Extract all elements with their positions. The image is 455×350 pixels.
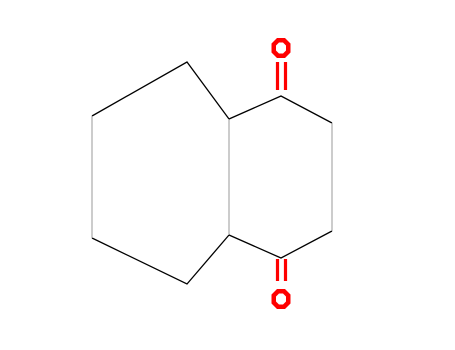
- wire: right ring right vertical: [331, 123, 333, 231]
- wire: left ring upper slants: [92, 62, 229, 119]
- wire: right ring lower slants to carbonyl: [229, 231, 332, 258]
- wire: right ring upper slants to carbonyl: [229, 96, 332, 123]
- wire: left ring lower slants: [92, 235, 229, 284]
- C=O bottom double bond: [278, 259, 286, 281]
- wire: left ring left vertical: [91, 116, 93, 238]
- wire: fusion bond vertical: [228, 119, 230, 235]
- O top glyph: [272, 38, 291, 58]
- C=O top double bond: [278, 62, 286, 90]
- O bottom glyph: [272, 289, 291, 309]
